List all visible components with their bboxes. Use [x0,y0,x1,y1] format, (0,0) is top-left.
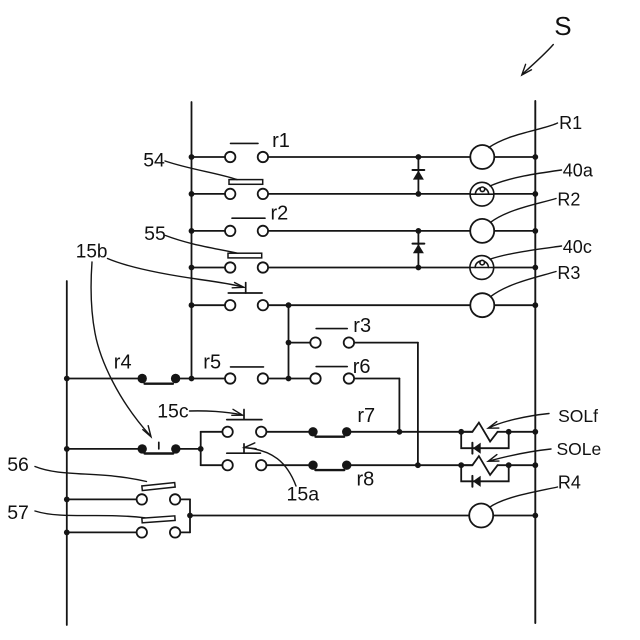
svg-text:57: 57 [7,502,29,524]
contact R3row actuator bar [228,292,262,294]
diode D3 (SOLf) [472,443,480,454]
svg-text:r8: r8 [357,469,375,491]
relay coil R2 [470,219,494,243]
wire row 55 [192,267,232,269]
node right rail 55 [532,265,538,271]
svg-text:R2: R2 [557,190,580,210]
svg-text:R4: R4 [558,472,581,492]
node r6-r7 [397,429,403,435]
svg-text:R1: R1 [559,113,582,133]
wire row r2 [192,230,232,232]
left bus rail [191,102,193,379]
NC bar contact 56 [142,483,175,491]
node left rail 55 [189,265,195,271]
svg-text:r1: r1 [272,130,290,152]
leader 57 [35,511,145,518]
svg-text:r2: r2 [271,202,289,224]
contact 54 circles [225,189,235,199]
label overline r2 [232,217,265,219]
node SOLe left [458,462,464,468]
wire vertical node B [288,305,290,378]
leader 54 [165,161,237,180]
leader 40c [490,246,562,259]
contact r8 closed [308,461,317,470]
NC bar contact 54 [229,180,263,185]
contact r7 closed [308,427,317,436]
node left rail r1 [189,154,195,160]
node SOLf left [458,429,464,435]
node right rail SOLf [532,429,538,435]
coil 40a [470,182,494,206]
node B bottom [286,376,292,382]
contact 15b bridge bar [145,452,174,454]
leader SOLe with arrow [490,449,551,461]
wire row R3 [192,304,232,306]
contact r1 circles [225,152,235,162]
contact r4 closed [138,374,147,383]
node SOLe right [506,462,512,468]
svg-text:15b: 15b [76,241,108,262]
leader R3 [491,272,557,297]
NC bar contact 57 [142,516,175,523]
wire row 56 [67,498,143,500]
leader R2 [491,199,557,223]
leader 56 [35,467,147,482]
leader 55 [166,236,239,254]
leader SOLf with arrow [490,414,550,428]
node B r3 [286,340,292,346]
svg-text:55: 55 [144,223,166,245]
svg-text:15a: 15a [287,484,320,506]
relay coil R4 [469,504,493,528]
node D2 bottom [416,265,422,271]
contact r5 circles [225,373,235,383]
node right rail r1 [532,154,538,160]
label overline r6 [316,366,347,368]
relay coil R3 [470,293,494,317]
node right rail R3 [532,302,538,308]
diode D1 wire [417,157,419,194]
wire row r8 [201,464,229,466]
wire row r3 [289,342,317,344]
svg-text:56: 56 [7,454,29,476]
node left rail r2 [189,228,195,234]
node 56-57 join [187,513,193,519]
svg-text:r6: r6 [353,356,371,378]
contact 15a actuator bar [227,452,261,454]
node D2 top [416,228,422,234]
label overline r3 [316,328,347,330]
svg-text:15c: 15c [157,400,189,422]
contact 15b closed [138,444,147,453]
wire vertical r6 drop [398,379,400,432]
NC bar contact 55 [228,253,262,258]
leader S arrow [523,45,554,75]
svg-text:R3: R3 [557,263,580,283]
svg-text:S: S [554,11,571,41]
leader 15b to 15b contact [91,262,151,436]
svg-text:54: 54 [143,150,165,172]
svg-text:r3: r3 [353,315,371,337]
contact 15c circles [222,427,232,437]
contact 57 circles [137,527,147,537]
lower-mid bus segment [189,499,191,532]
node SOLf right [506,429,512,435]
svg-text:SOLe: SOLe [557,439,602,459]
solenoid SOLe zigzag [461,456,497,475]
svg-text:40a: 40a [563,161,594,181]
node far-left r4 [64,376,70,382]
node right rail 54 [532,191,538,197]
leader 15b to R3row contact [108,259,244,288]
node left rail R3row [189,302,195,308]
node D1 bottom [416,191,422,197]
node D1 top [416,154,422,160]
leader 15c with arrow [190,411,242,415]
contact r4 bridge bar [145,383,173,385]
leader R1 [489,123,558,148]
contact 15c actuator bar [227,419,262,421]
wire row r1 [192,156,232,158]
contact 15b-top circles [225,300,235,310]
diode D4 (SOLe) [472,476,480,487]
contact r3 circles [310,337,320,347]
contact r2 circles [225,226,235,236]
node right rail r2 [532,228,538,234]
wire bracket vertical [200,432,202,465]
diode D2 [413,244,425,254]
label overline r1 [231,142,259,144]
contact r7 bridge bar [316,436,345,438]
node far-left 57 [64,530,70,536]
svg-text:40c: 40c [563,237,592,257]
svg-text:r5: r5 [203,352,221,374]
wire row R4 [190,515,535,517]
solenoid SOLf zigzag [461,423,497,442]
SOLf diode branch wire [461,432,509,448]
node right rail R4 [532,513,538,519]
svg-text:SOLf: SOLf [558,406,598,426]
contact 15a circles [222,460,232,470]
far-left bus rail [66,281,68,625]
contact 56 circles [137,494,147,504]
diode D1 [413,170,425,180]
leader 40a [490,170,562,186]
wire vertical r3 drop [417,343,419,466]
wire row 57 [67,531,143,533]
svg-text:r4: r4 [114,352,132,374]
node left rail 54 [189,191,195,197]
wire row r4 r5 r6 [67,378,143,380]
node r3-r8 [415,462,421,468]
label overline r5 [231,366,264,368]
wire row 15b contact [67,448,143,450]
node far-left 56 [64,497,70,503]
contact r6 circles [310,373,320,383]
wire row r7 [201,431,229,433]
contact 15b actuator tick [158,442,160,449]
wire row 54 [192,193,232,195]
SOLe diode branch wire [461,465,509,481]
diode D2 wire [417,231,419,268]
right bus rail [534,101,536,623]
node B top [286,302,292,308]
contact r8 bridge bar [316,469,345,471]
contact 55 circles [225,262,235,272]
leader 15a with arrow [246,448,296,486]
node right rail SOLe [532,462,538,468]
node left rail r5 [189,376,195,382]
node far-left 15b [64,446,70,452]
node bracket 15b [198,446,204,452]
coil 40c [470,256,494,280]
relay coil R1 [470,145,494,169]
leader R4 [490,487,558,507]
svg-text:r7: r7 [357,405,375,427]
